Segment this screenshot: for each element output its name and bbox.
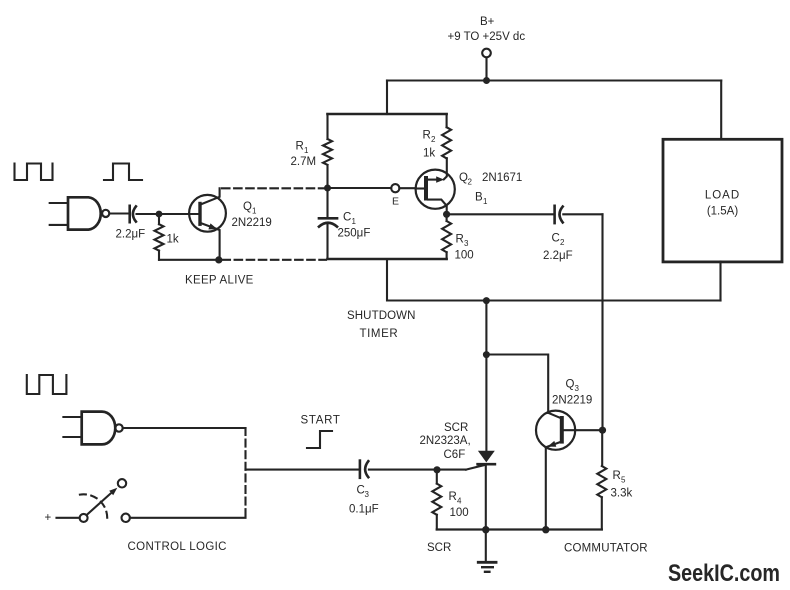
svg-text:1: 1 <box>483 197 488 206</box>
svg-text:5: 5 <box>621 476 626 485</box>
svg-text:1: 1 <box>352 217 357 226</box>
wire SCR gate diagonal <box>466 464 487 469</box>
wire load bottom drop <box>719 262 721 301</box>
wire top supply rail <box>387 79 721 81</box>
svg-text:3: 3 <box>365 490 370 499</box>
switch S1 <box>45 479 246 524</box>
svg-text:SeekIC.com: SeekIC.com <box>668 560 780 587</box>
svg-text:2N2219: 2N2219 <box>232 217 272 229</box>
node commutator tee <box>483 351 490 358</box>
svg-text:1k: 1k <box>167 234 179 246</box>
svg-text:C6F: C6F <box>444 449 466 461</box>
svg-text:4: 4 <box>457 497 462 506</box>
SCR 2N2323A <box>420 355 495 530</box>
load box <box>663 139 782 262</box>
transistor Q3 2N2219 <box>536 379 603 530</box>
svg-text:2.7M: 2.7M <box>291 156 317 168</box>
node E terminal <box>391 184 399 192</box>
svg-text:2: 2 <box>468 178 473 187</box>
svg-text:2N2323A,: 2N2323A, <box>420 435 471 447</box>
svg-text:2: 2 <box>431 135 436 144</box>
wire timer box top <box>328 113 447 116</box>
wire rail drop to load <box>720 81 722 140</box>
node Q1 base junction <box>156 211 163 218</box>
wire E node to emitter <box>328 187 392 189</box>
node R1/C1/E junction <box>324 185 331 192</box>
svg-text:R: R <box>296 141 304 153</box>
resistor R2 <box>423 114 452 160</box>
svg-text:250μF: 250μF <box>338 228 371 240</box>
svg-text:TIMER: TIMER <box>360 328 399 340</box>
resistor R4 <box>432 470 468 530</box>
transistor Q1 2N2219 <box>189 188 272 259</box>
svg-text:2N1671: 2N1671 <box>482 172 522 184</box>
svg-text:START: START <box>301 415 341 427</box>
svg-text:R: R <box>449 491 457 503</box>
wire C2 to commutator base <box>601 214 603 430</box>
capacitor C1 <box>319 188 370 259</box>
wire dashed keep-alive top <box>222 187 328 189</box>
svg-text:SCR: SCR <box>427 542 451 554</box>
svg-text:Q: Q <box>243 201 252 213</box>
svg-text:2.2μF: 2.2μF <box>116 229 146 241</box>
svg-text:C: C <box>343 212 351 224</box>
capacitor C2 <box>447 206 603 262</box>
svg-text:Q: Q <box>566 379 575 391</box>
wire bottom rail <box>437 528 602 530</box>
waveform single pulse top <box>104 164 142 181</box>
wire commutator feed vertical <box>485 301 487 355</box>
node B+ supply terminal <box>448 16 526 84</box>
wire timer bottom drop and return rail <box>387 259 721 301</box>
capacitor 2.2uF input <box>116 206 199 241</box>
label shutdown timer <box>347 310 416 340</box>
svg-text:R: R <box>423 130 431 142</box>
node SCR cathode junction <box>482 526 489 533</box>
node R4 top junction <box>433 466 440 473</box>
svg-text:(1.5A): (1.5A) <box>707 206 738 218</box>
svg-text:R: R <box>456 234 464 246</box>
svg-text:3: 3 <box>575 384 580 393</box>
svg-text:1k: 1k <box>423 148 435 160</box>
capacitor C3 <box>246 461 467 516</box>
svg-text:COMMUTATOR: COMMUTATOR <box>564 542 648 554</box>
svg-text:3: 3 <box>464 239 469 248</box>
resistor R1 <box>291 114 333 188</box>
svg-text:B+: B+ <box>480 16 495 28</box>
svg-text:1: 1 <box>304 146 309 155</box>
wire dashed keep-alive bottom <box>223 259 327 261</box>
svg-text:SHUTDOWN: SHUTDOWN <box>347 310 416 322</box>
svg-text:SCR: SCR <box>444 422 468 434</box>
svg-text:B: B <box>475 192 483 204</box>
svg-text:1: 1 <box>252 207 257 216</box>
wire timer box bottom <box>328 258 447 261</box>
svg-text:R: R <box>613 470 621 482</box>
waveform square wave top-left <box>15 164 53 181</box>
svg-text:2.2μF: 2.2μF <box>543 250 573 262</box>
wire keep-alive emitter bottom <box>159 259 219 261</box>
resistor R3 <box>442 214 474 261</box>
ground <box>478 530 496 572</box>
svg-text:KEEP ALIVE: KEEP ALIVE <box>185 275 254 287</box>
svg-text:100: 100 <box>455 250 474 262</box>
NAND gate U1 <box>50 197 129 229</box>
svg-text:2N2219: 2N2219 <box>552 395 592 407</box>
wire E terminal to Q2 <box>399 187 415 189</box>
svg-text:3.3k: 3.3k <box>611 488 633 500</box>
node Q1 emitter junction <box>215 256 222 263</box>
node Q3 emitter junction <box>542 526 549 533</box>
waveform start step <box>307 431 332 448</box>
waveform square wave bottom-left <box>27 375 67 394</box>
svg-text:C: C <box>552 233 560 245</box>
wire dashed control logic vertical <box>244 428 246 518</box>
resistor R5 <box>597 430 632 529</box>
resistor 1k <box>155 214 179 260</box>
svg-text:CONTROL LOGIC: CONTROL LOGIC <box>128 541 227 553</box>
wire rail drop to timer box <box>386 81 388 115</box>
node B1 junction <box>443 211 450 218</box>
svg-text:+9 TO +25V dc: +9 TO +25V dc <box>448 31 526 43</box>
svg-text:100: 100 <box>450 507 469 519</box>
svg-text:0.1μF: 0.1μF <box>349 504 379 516</box>
svg-text:LOAD: LOAD <box>705 190 740 202</box>
svg-text:E: E <box>392 196 399 208</box>
node Q3 base junction <box>599 427 606 434</box>
transistor Q2 (UJT 2N1671) <box>416 158 523 214</box>
wire tee to Q3 collector <box>486 355 548 414</box>
node return rail junction <box>483 297 490 304</box>
svg-text:+: + <box>45 512 52 524</box>
NAND gate U2 <box>63 412 245 445</box>
svg-text:2: 2 <box>560 238 565 247</box>
